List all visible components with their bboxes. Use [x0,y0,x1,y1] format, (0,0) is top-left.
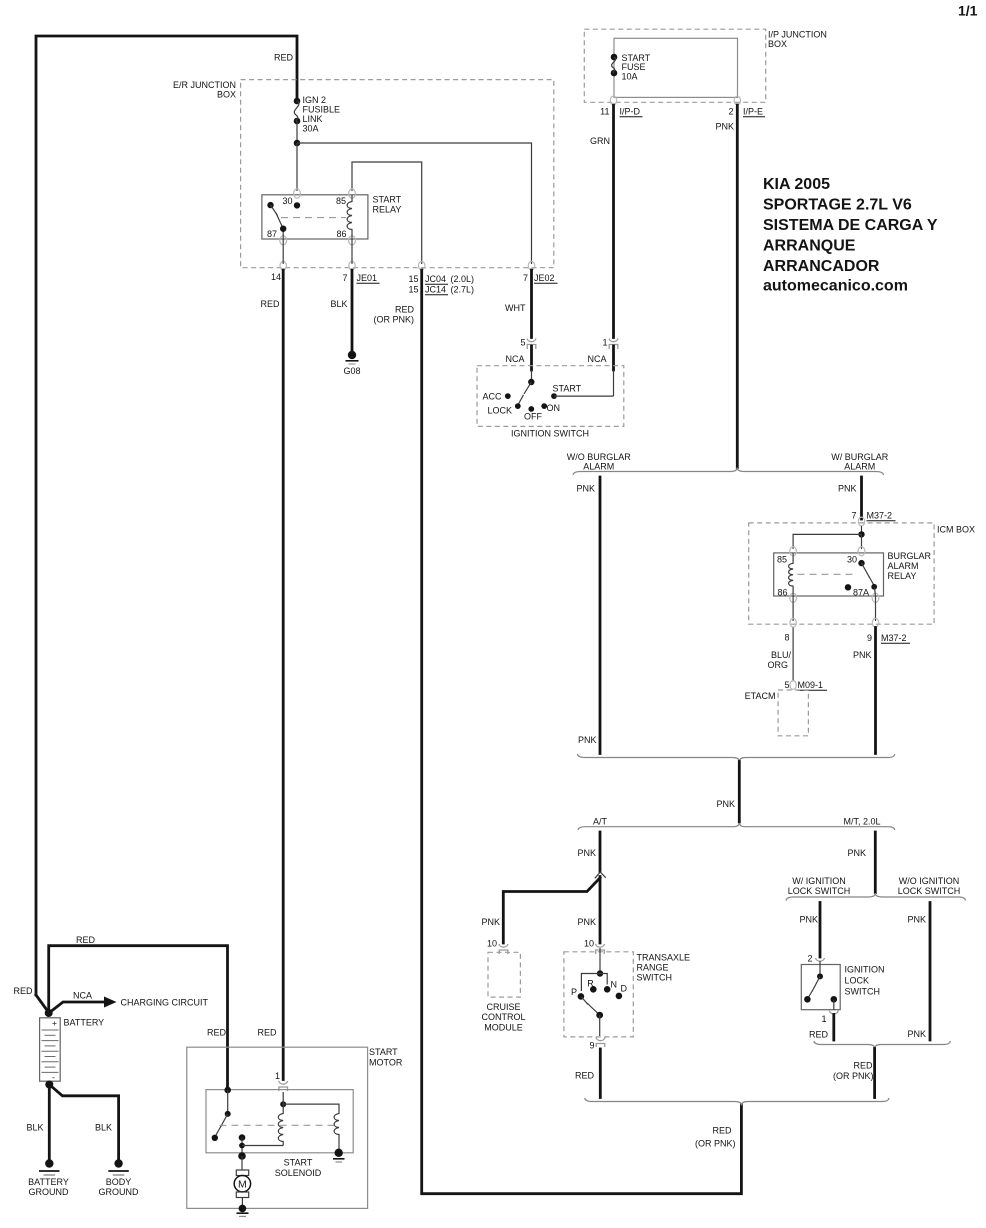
wire PNK I/P-E pin 2 down to split [736,105,739,468]
fusible link IGN 2 30A [294,98,301,105]
wire pin5 into switch [530,346,533,370]
svg-text:M: M [238,1179,247,1191]
merge brace ignition lock options [814,1041,950,1049]
svg-text:ALARM: ALARM [583,462,614,472]
ground G08 [348,351,356,359]
svg-text:ARRANQUE: ARRANQUE [763,238,856,255]
wire pin7 into ICM [861,526,863,534]
connector pin 5 ignition switch [527,339,536,350]
svg-text:LOCK SWITCH: LOCK SWITCH [788,886,851,896]
svg-text:D: D [621,984,628,994]
svg-text:GROUND: GROUND [99,1187,139,1197]
fuse START FUSE 10A [611,54,618,61]
svg-text:NCA: NCA [73,991,92,1001]
svg-text:MODULE: MODULE [484,1023,523,1033]
wire fusible link to node [296,121,298,143]
svg-text:SISTEMA DE CARGA Y: SISTEMA DE CARGA Y [763,217,938,234]
start relay mech link [281,217,346,219]
wire START contact to pin 1 [554,395,614,397]
burglar alarm relay pin 30 contact and arm [858,560,864,566]
ignition switch arm to LOCK [524,382,531,394]
svg-text:30A: 30A [303,124,319,134]
svg-text:RED: RED [575,1071,595,1081]
svg-text:RED: RED [257,1028,277,1038]
merge brace burglar alarm branches [577,754,895,762]
svg-text:M37-2: M37-2 [867,511,893,521]
svg-text:ORG: ORG [767,660,788,670]
start relay switch arm 87-30 [267,202,273,208]
merge brace bottom RED (OR PNK) [585,1098,889,1106]
svg-text:ACC: ACC [482,392,502,402]
svg-text:A/T: A/T [593,817,608,827]
svg-text:RED: RED [712,1126,732,1136]
svg-text:11: 11 [600,107,609,117]
svg-text:ETACM: ETACM [745,691,776,701]
burglar alarm relay [774,553,884,596]
svg-text:FUSIBLE: FUSIBLE [303,105,341,115]
I/P box edge ovals [610,96,616,105]
svg-text:BATTERY: BATTERY [28,1177,69,1187]
svg-text:JE02: JE02 [534,273,555,283]
svg-text:BOX: BOX [217,90,236,100]
wire node to JE02 column (to ignition switch feed) [297,143,532,264]
wire node to start relay pin 30 [296,143,298,191]
svg-text:I/P JUNCTION: I/P JUNCTION [768,30,827,40]
ignition lock switch arm [812,976,820,991]
svg-text:M09-1: M09-1 [798,680,824,690]
svg-text:(2.0L): (2.0L) [451,274,475,284]
node transaxle common [597,970,603,976]
svg-text:9: 9 [867,633,872,643]
svg-text:ALARM: ALARM [844,462,875,472]
wire relay 87A-side pin to ICM pin 9 [875,596,877,621]
svg-text:ICM BOX: ICM BOX [937,525,975,535]
ignition lock switch [801,965,840,1010]
svg-text:30: 30 [282,196,292,206]
svg-text:BLU/: BLU/ [771,650,792,660]
start relay U-ER [262,195,368,239]
wire battery positive feed (top-left loop, RED) [36,36,297,995]
burglar alarm relay pin ovals [790,547,797,556]
burglar alarm relay contact 87A [845,584,851,590]
wire pin86 to JE01 edge [351,239,353,264]
svg-text:M37-2: M37-2 [881,633,907,643]
svg-text:(OR PNK): (OR PNK) [695,1139,736,1149]
wire PNK cruise control branch [503,878,600,943]
ETACM [778,690,808,736]
svg-text:WHT: WHT [505,303,526,313]
svg-text:W/ BURGLAR: W/ BURGLAR [831,452,889,462]
svg-text:RELAY: RELAY [373,205,402,215]
svg-text:10: 10 [487,939,497,949]
svg-text:1/1: 1/1 [958,3,978,19]
transaxle contact R [590,986,597,993]
svg-text:PNK: PNK [907,1029,926,1039]
svg-text:SWITCH: SWITCH [637,973,673,983]
wire PNK A/T branch [599,832,602,872]
svg-text:(OR PNK): (OR PNK) [374,315,415,325]
svg-text:M/T, 2.0L: M/T, 2.0L [843,817,880,827]
svg-text:OFF: OFF [524,412,542,422]
wire BLK JE01 to ground [351,270,354,352]
svg-text:MOTOR: MOTOR [369,1058,403,1068]
wire NCA to charging circuit with arrow [50,1002,106,1013]
ICM box edge ovals [790,618,796,627]
wire pin 2 into lock switch [819,961,821,976]
svg-text:W/ IGNITION: W/ IGNITION [792,876,846,886]
ignition switch contact ON [541,403,547,409]
svg-text:PNK: PNK [799,915,818,925]
svg-text:15: 15 [408,274,418,284]
svg-text:G08: G08 [343,366,360,376]
start solenoid hold-in coil [283,1104,339,1153]
svg-text:10: 10 [584,939,594,949]
connector pin 2 ignition lock switch [816,958,825,961]
svg-text:ON: ON [547,403,561,413]
svg-text:RED: RED [207,1028,227,1038]
wire PNK M/T branch [874,832,877,893]
svg-text:PNK: PNK [853,650,872,660]
wire node to relay pin 30 [861,534,863,549]
wire PNK merged [738,762,741,823]
ignition switch [477,366,624,427]
wire GRN I/P-D pin 11 down to ignition switch pin 1 [612,105,615,338]
svg-text:BOX: BOX [768,39,787,49]
node ICM feed [858,531,864,537]
ground start solenoid [335,1149,343,1157]
svg-text:GRN: GRN [590,136,610,146]
wire PNK w/o ignition lock switch branch [929,903,932,1041]
transaxle contact N [604,986,611,993]
svg-text:15: 15 [408,285,418,295]
svg-text:PNK: PNK [838,484,857,494]
svg-text:TRANSAXLE: TRANSAXLE [637,953,691,963]
svg-text:E/R JUNCTION: E/R JUNCTION [173,80,236,90]
transaxle contact P [578,993,585,1000]
svg-text:+: + [52,1018,57,1028]
svg-text:RED: RED [76,935,96,945]
svg-text:87: 87 [267,229,277,239]
svg-text:PNK: PNK [577,917,596,927]
svg-text:W/O IGNITION: W/O IGNITION [899,876,960,886]
E/R box edge ovals [280,261,286,270]
svg-text:1: 1 [821,1014,826,1024]
battery [40,1018,61,1081]
motor M [236,1170,248,1176]
start solenoid mech link [220,1124,335,1126]
svg-text:IGNITION: IGNITION [845,965,885,975]
svg-text:FUSE: FUSE [622,62,646,72]
start motor box [187,1047,368,1208]
svg-text:RED: RED [13,986,33,996]
start relay coil 85-86 [347,195,352,239]
start relay pin 30 contact [294,202,300,208]
svg-text:GROUND: GROUND [29,1187,69,1197]
svg-text:PNK: PNK [716,799,735,809]
svg-text:5: 5 [520,338,525,348]
svg-text:CRUISE: CRUISE [486,1002,520,1012]
svg-text:86: 86 [778,588,788,598]
svg-text:RED: RED [395,305,415,315]
E/R junction box [241,80,554,268]
svg-text:BLK: BLK [330,299,347,309]
wire start relay pin 85 to JC04 column [352,162,422,264]
svg-text:START: START [284,1158,313,1168]
svg-text:ALARM: ALARM [888,561,919,571]
svg-text:NCA: NCA [505,354,524,364]
svg-text:SOLENOID: SOLENOID [275,1168,322,1178]
svg-text:7: 7 [523,273,528,283]
burglar alarm relay mech link [798,573,856,575]
node junction below fusible link [294,140,301,147]
start solenoid switch feed node [224,1087,231,1094]
svg-text:RED: RED [853,1061,873,1071]
svg-text:5: 5 [784,680,789,690]
wire relay pin 86 to ICM pin 8 [792,596,794,621]
svg-text:-: - [52,1072,55,1082]
svg-text:CHARGING CIRCUIT: CHARGING CIRCUIT [121,998,209,1008]
svg-text:BATTERY: BATTERY [64,1018,105,1028]
svg-text:85: 85 [336,196,346,206]
svg-text:ARRANCADOR: ARRANCADOR [763,258,880,275]
svg-text:LOCK: LOCK [487,406,512,416]
svg-text:RED: RED [274,53,294,63]
wire RED (OR PNK) JC04 down to bottom route [422,270,742,1194]
svg-text:P: P [571,987,577,997]
svg-text:8: 8 [784,633,789,643]
svg-text:BODY: BODY [106,1177,132,1187]
wire BLK body ground [49,1085,118,1162]
svg-text:PNK: PNK [907,915,926,925]
wire RED pin 14 down to start motor pin 1 [282,270,285,1080]
svg-text:JC14: JC14 [425,285,446,295]
wire contact to motor [241,1156,243,1170]
svg-text:(2.7L): (2.7L) [451,285,475,295]
transaxle switch arm P to output [582,997,589,1005]
wire RED (OR PNK) merged [873,1049,876,1098]
ignition switch contact LOCK [515,403,521,409]
svg-text:SPORTAGE 2.7L V6: SPORTAGE 2.7L V6 [763,197,912,214]
svg-text:2: 2 [807,954,812,964]
ground start motor [239,1205,247,1213]
svg-text:PNK: PNK [715,122,734,132]
connector pin 9 transaxle [596,1038,605,1048]
svg-text:I/P-D: I/P-D [620,107,641,117]
ignition lock switch contact to pin 1 [831,996,838,1003]
svg-text:CONTROL: CONTROL [481,1012,525,1022]
svg-text:1: 1 [275,1071,280,1081]
wire solenoid contact bus [242,1145,283,1147]
svg-text:NCA: NCA [587,354,606,364]
svg-text:RANGE: RANGE [637,963,669,973]
svg-text:W/O BURGLAR: W/O BURGLAR [567,452,632,462]
svg-text:IGNITION SWITCH: IGNITION SWITCH [511,429,589,439]
burglar alarm relay coil 85-86 [789,553,794,596]
svg-text:BLK: BLK [95,1123,112,1133]
wire pin 10 into switch [599,948,601,974]
wire BLK battery ground [48,1085,51,1162]
wire pin1 into switch [612,346,615,370]
svg-text:PNK: PNK [577,848,596,858]
svg-text:BLK: BLK [26,1123,43,1133]
svg-text:automecanico.com: automecanico.com [763,278,908,295]
connector pin 1 ignition switch [609,339,618,350]
svg-text:RED: RED [809,1030,829,1040]
ignition switch contact ACC [505,393,511,399]
svg-text:N: N [611,980,618,990]
ignition switch wiper node [528,379,534,385]
svg-text:RELAY: RELAY [888,571,917,581]
start solenoid fixed contact [239,1134,246,1141]
connector pin 1 start solenoid [279,1081,288,1091]
wire RED lock switch to merge [832,1015,835,1041]
svg-text:87A: 87A [853,588,869,598]
svg-text:1: 1 [602,338,607,348]
ignition switch contact OFF [528,406,534,412]
svg-text:START: START [373,195,402,205]
svg-text:85: 85 [777,555,787,565]
node battery positive [45,1009,53,1017]
wire RED transaxle to merge [599,1049,602,1098]
svg-text:RED: RED [260,299,280,309]
svg-text:7: 7 [342,273,347,283]
wire WHT JE02 down to ignition switch pin 5 [530,270,533,338]
svg-text:R: R [587,979,594,989]
svg-text:14: 14 [271,272,281,282]
wire PNK w/ burglar alarm branch [860,477,863,519]
svg-text:(OR PNK): (OR PNK) [833,1071,874,1081]
wire battery feed diagonal [36,995,49,1013]
svg-text:IGN 2: IGN 2 [303,95,327,105]
ICM box [749,523,934,624]
wire BLU/ORG pin 8 to ETACM [792,628,794,682]
connector pin 10 cruise control [499,944,508,954]
svg-text:START: START [553,384,582,394]
start solenoid switch arm [221,1114,228,1127]
transaxle contact D [616,993,623,1000]
svg-text:JE01: JE01 [357,273,378,283]
svg-text:LOCK: LOCK [845,976,870,986]
start solenoid pull-in coil [280,1101,286,1107]
start relay pin ovals [294,189,301,198]
connector pin 1 ignition lock switch [829,1011,838,1014]
transaxle bracket to P and N [581,974,607,992]
splice arrow to cruise control branch [595,872,606,878]
svg-text:86: 86 [337,229,347,239]
svg-text:I/P-E: I/P-E [743,107,763,117]
svg-text:JC04: JC04 [425,274,446,284]
svg-text:LOCK SWITCH: LOCK SWITCH [898,886,961,896]
svg-text:PNK: PNK [578,735,597,745]
ignition switch contact START [551,393,557,399]
svg-text:START: START [369,1047,398,1057]
transaxle range switch [564,952,633,1037]
ground body [114,1159,122,1167]
wire PNK w/ ignition lock switch branch [819,903,822,958]
svg-text:2: 2 [728,107,733,117]
wire arm to pin 9 [599,1015,601,1036]
wire PNK w/o burglar alarm branch [599,477,602,754]
I/P junction box inner bus [614,38,738,97]
svg-text:BURGLAR: BURGLAR [888,551,932,561]
svg-text:LINK: LINK [303,114,323,124]
svg-text:PNK: PNK [481,917,500,927]
ground battery [45,1159,53,1167]
svg-text:PNK: PNK [576,484,595,494]
svg-text:30: 30 [847,555,857,565]
connector pin 10 transaxle range switch [596,944,605,954]
start solenoid box [206,1090,353,1153]
svg-text:KIA 2005: KIA 2005 [763,176,830,193]
svg-text:SWITCH: SWITCH [845,987,881,997]
node battery negative [45,1081,53,1089]
svg-text:9: 9 [589,1041,594,1051]
wire node to relay pin 85 [793,534,861,549]
wire PNK pin 9 down to merge [874,628,877,754]
svg-text:10A: 10A [622,72,638,82]
svg-text:7: 7 [851,511,856,521]
svg-text:PNK: PNK [847,848,866,858]
wire pin87 to pin 14 edge [282,239,284,264]
I/P junction box [584,29,765,102]
cruise control module [488,952,520,997]
wire RED battery to start motor switch [49,946,228,1089]
